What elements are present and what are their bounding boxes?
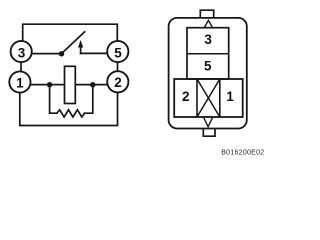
- svg-text:3: 3: [204, 32, 212, 47]
- connector top tab: [200, 10, 213, 17]
- connector top index arrow: [204, 20, 212, 27]
- svg-text:2: 2: [114, 75, 122, 90]
- connector cavity box 3/5: [187, 28, 229, 79]
- wire coil pin1 to pin2: [31, 84, 107, 86]
- junction dot coil right: [90, 82, 95, 87]
- wire bottom bus pin1 to pin2: [20, 92, 118, 125]
- svg-text:3: 3: [18, 45, 26, 60]
- junction dot coil left: [47, 82, 52, 87]
- junction dot switch: [59, 51, 64, 56]
- wire top bus pin3 to pin5: [23, 24, 118, 41]
- pin 1 terminal circle: [9, 71, 30, 92]
- svg-text:1: 1: [16, 75, 24, 90]
- svg-text:1: 1: [226, 89, 234, 104]
- wire pin3 to switch junction: [32, 53, 62, 55]
- svg-text:5: 5: [204, 59, 212, 74]
- relay coil: [65, 66, 76, 103]
- wire pin5 to pin2: [117, 62, 119, 71]
- divider right of keyway: [219, 79, 221, 117]
- divider between 3 and 5: [187, 53, 229, 55]
- connector bottom index arrow: [204, 118, 213, 127]
- pin 5 terminal circle: [107, 41, 128, 62]
- pin 3 terminal circle: [11, 41, 32, 62]
- switch blade: [62, 32, 85, 54]
- connector bottom tab: [203, 129, 215, 137]
- resistor branch right wire: [85, 85, 93, 114]
- divider left of keyway: [196, 79, 198, 117]
- svg-text:2: 2: [182, 89, 190, 104]
- wire pin3 to pin1: [20, 62, 22, 72]
- pin 2 terminal circle: [107, 71, 128, 92]
- svg-text:5: 5: [114, 45, 122, 60]
- connector outer body: [169, 18, 247, 129]
- svg-text:B016200E02: B016200E02: [221, 150, 264, 157]
- keyway X cross: [197, 79, 220, 117]
- resistor zigzag: [57, 110, 85, 117]
- switch arrow stem: [80, 46, 82, 54]
- connector cavity box 2/x/1: [174, 79, 243, 117]
- switch arrowhead: [78, 40, 83, 48]
- wire switch arrow to pin5: [81, 52, 108, 54]
- resistor branch left wire: [50, 85, 57, 114]
